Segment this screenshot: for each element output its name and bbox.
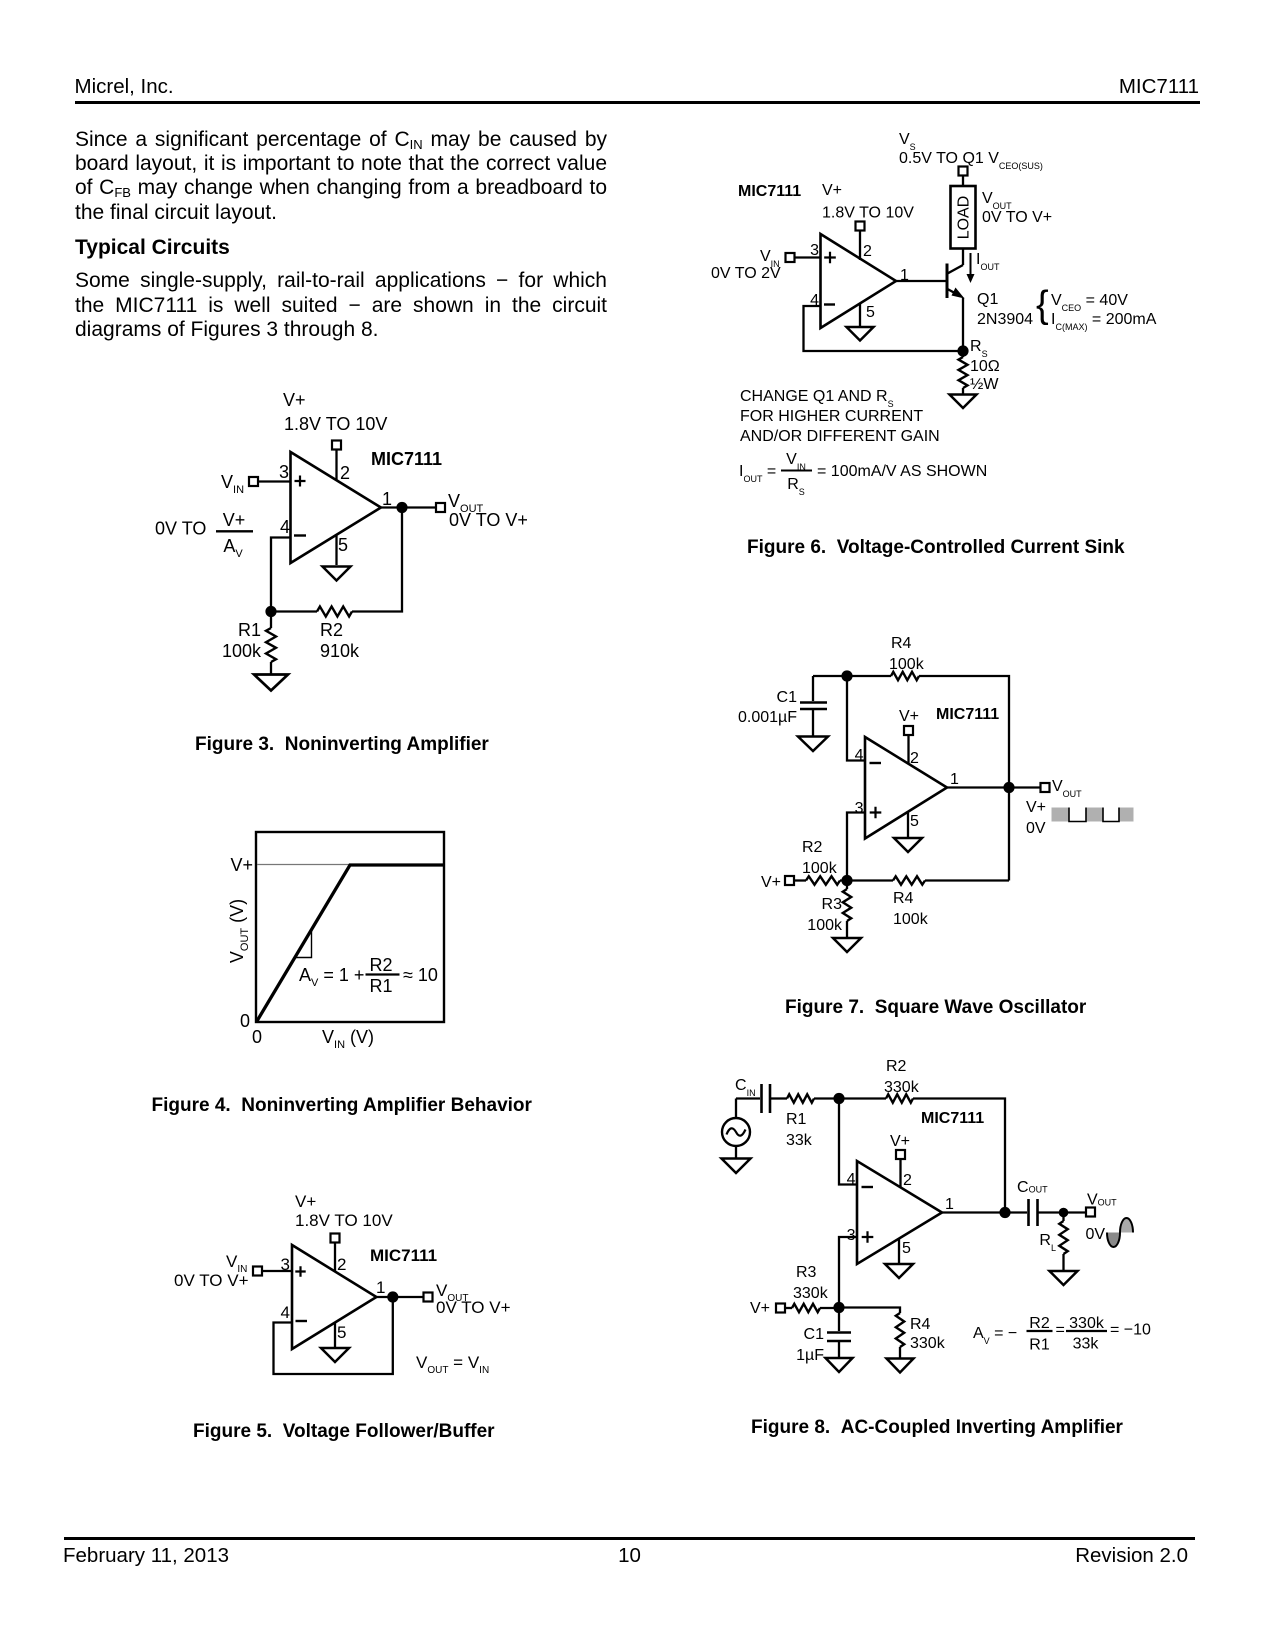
resistor R4 (fig8) [896,1313,904,1347]
svg-text:COUT​: COUT​ [1017,1179,1048,1196]
svg-text:0: 0 [252,1027,262,1047]
inverting input - symbol (fig7) [870,762,882,764]
terminal V+ pin 2 (fig5) [331,1234,340,1243]
svg-text:MIC7111: MIC7111 [371,449,442,469]
op-amp U1 MIC7111 (fig3) [291,452,381,563]
svg-text:100k: 100k [802,860,838,877]
sine wave graphic (fig8) [1107,1233,1120,1248]
header right: MIC7111 [999,77,1199,98]
svg-text:R4: R4 [891,635,912,652]
svg-text:0V TO V+: 0V TO V+ [982,209,1052,226]
svg-text:R2: R2 [320,620,343,640]
terminal VIN (fig6) [786,253,795,262]
ground pin5 (fig6) [847,327,874,341]
caption figure 5 [193,1422,495,1441]
svg-text:V+: V+ [822,182,842,199]
resistor R2 (fig7) [794,879,806,881]
wire op-amp output to Q1 base (fig6) [896,280,946,282]
svg-text:330k: 330k [910,1335,946,1352]
svg-text:2: 2 [863,243,872,260]
resistor R4 top (fig7) [891,672,919,680]
svg-text:= 100mA/V AS SHOWN: = 100mA/V AS SHOWN [817,463,987,480]
svg-text:R1: R1 [1029,1337,1050,1354]
wire pin2 (fig6) [859,231,861,261]
footer rule [64,1537,1195,1540]
header rule [75,101,1200,104]
svg-text:33k: 33k [1073,1336,1100,1353]
svg-text:VOUT​: VOUT​ [1087,1192,1117,1209]
terminal VS (fig6) [959,167,968,176]
svg-text:0V TO V+: 0V TO V+ [436,1298,511,1317]
ground RS (fig6) [950,395,977,409]
svg-text:V+: V+ [223,510,246,530]
junction input node (fig8) [833,1093,844,1104]
op-amp U1 (fig8) [857,1161,942,1264]
wire pin5 to ground (fig6) [859,304,861,327]
svg-text:5: 5 [337,1323,346,1342]
junction output node (fig5) [387,1291,398,1302]
svg-text:2: 2 [340,463,350,483]
svg-text:1: 1 [945,1196,954,1213]
svg-text:{: { [1036,284,1049,326]
svg-text:1.8V TO 10V: 1.8V TO 10V [284,414,387,434]
junction bias node (fig8) [833,1302,844,1313]
terminal V+ pin 2 (fig6) [856,222,865,231]
terminal VIN (fig3) [249,477,258,486]
transistor Q1 2N3904 (fig6) [948,265,964,274]
svg-text:R1: R1 [786,1111,807,1128]
wire inverting input to feedback node (fig3) [271,538,291,608]
svg-text:2: 2 [910,750,919,767]
svg-text:3: 3 [855,800,864,817]
svg-text:0: 0 [240,1011,250,1031]
junction output node (fig8) [999,1207,1010,1218]
svg-text:MIC7111: MIC7111 [370,1246,437,1265]
wire source to CIN (fig8) [736,1097,760,1099]
terminal V+ pin 2 (fig3) [332,441,341,450]
svg-text:2: 2 [903,1172,912,1189]
svg-text:4: 4 [855,747,864,764]
svg-text:0V: 0V [1086,1226,1106,1243]
svg-text:R3: R3 [796,1264,817,1281]
svg-text:MIC7111: MIC7111 [936,706,999,723]
svg-text:100k: 100k [222,641,262,661]
svg-text:FOR HIGHER CURRENT: FOR HIGHER CURRENT [740,408,923,425]
resistor R1 (fig3) [270,616,272,628]
paragraph 2 [75,269,607,343]
resistor RL (fig8) [1062,1213,1064,1222]
wire pin2 (fig8) [899,1159,901,1188]
svg-text:V+: V+ [1026,799,1046,816]
wire pin5 to ground (fig7) [907,812,909,838]
svg-text:V+: V+ [295,1192,316,1211]
junction RS node (fig6) [957,345,968,356]
svg-text:1: 1 [900,267,909,284]
svg-text:LOAD: LOAD [956,196,973,240]
wire VIN input (fig5) [262,1270,292,1272]
ground source (fig8) [722,1159,751,1174]
svg-text:910k: 910k [320,641,360,661]
svg-text:=: = [1056,1322,1065,1339]
svg-text:0V TO: 0V TO [155,519,206,539]
header left: Micrel, Inc. [75,77,174,98]
terminal V+ left (fig7) [785,876,794,885]
inverting input - symbol (fig3) [294,534,306,536]
svg-text:R1: R1 [369,976,392,996]
svg-text:VOUT​: VOUT​ [1052,778,1082,799]
resistor R4 bottom (fig7) [893,876,925,884]
ground R1 (fig3) [254,675,288,691]
wire pin5 to ground (fig8) [898,1238,900,1264]
resistor RS (fig6) [962,351,964,357]
footer revision [988,1546,1188,1567]
svg-text:10Ω: 10Ω [970,358,1000,375]
wire VIN input (fig3) [258,480,291,482]
svg-text:VOUT​ (V): VOUT​ (V) [227,899,251,963]
inverting input - symbol (fig6) [824,303,835,305]
svg-text:VIN​: VIN​ [221,472,244,496]
load box (fig6) [951,186,976,249]
svg-text:= −10: = −10 [1110,1322,1151,1339]
wire node to R2 (fig3) [271,610,317,612]
svg-text:0.5V TO Q1 VCEO(SUS)​: 0.5V TO Q1 VCEO(SUS)​ [899,150,1043,171]
svg-text:33k: 33k [786,1132,813,1149]
svg-text:3: 3 [847,1227,856,1244]
wire Q1 emitter down (fig6) [962,298,964,352]
svg-text:CIN​: CIN​ [735,1077,756,1098]
wire node to R4 (fig8) [839,1308,900,1314]
junction RL node (fig8) [1059,1208,1069,1218]
svg-text:RS​: RS​ [970,338,988,359]
svg-text:V+: V+ [899,708,919,725]
wire pin2 (fig5) [334,1243,336,1273]
wire R4 to right rail (fig7) [919,676,1009,788]
wire output (fig7) [947,786,1040,788]
wire pin5 to ground (fig3) [335,535,337,566]
capacitor C1 (fig7) [812,676,814,701]
ground RL (fig8) [1050,1271,1078,1285]
svg-text:2N3904: 2N3904 [977,311,1033,328]
junction output node (fig7) [1003,782,1014,793]
svg-text:RS​: RS​ [787,476,805,497]
wire load to Q1 collector (fig6) [962,249,964,266]
ground pin5 (fig3) [323,567,351,581]
terminal V+ left (fig8) [776,1304,785,1313]
svg-text:V+: V+ [750,1300,770,1317]
ground R4 (fig8) [887,1359,914,1373]
wire output (fig8) [942,1211,1027,1213]
svg-text:Q1: Q1 [977,291,998,308]
svg-text:0V TO 2V: 0V TO 2V [711,265,781,282]
svg-text:VS​: VS​ [899,131,916,152]
svg-text:VIN​ (V): VIN​ (V) [322,1027,374,1051]
footer date [63,1546,229,1567]
svg-text:R2: R2 [369,955,392,975]
caption figure 4 [152,1096,532,1115]
resistor R1 (fig8) [787,1094,814,1102]
wire noninverting input to node (fig8) [839,1237,857,1308]
svg-text:R1: R1 [238,620,261,640]
svg-text:VIN​: VIN​ [786,451,806,472]
wire noninverting input (fig7) [847,813,865,881]
wire output (fig5) [376,1296,423,1298]
junction top node (fig7) [841,670,852,681]
wire node to R4 bottom (fig7) [847,879,893,881]
wire inverting input to node (fig8) [839,1099,857,1185]
op-amp U1 MIC7111 (fig5) [292,1245,376,1349]
svg-text:R4: R4 [910,1316,931,1333]
wire R1 to node (fig8) [814,1097,886,1099]
noninverting input + symbol (fig7) [870,807,882,819]
op-amp U1 (fig6) [821,234,897,328]
wire pin2 (fig3) [335,450,337,482]
terminal VOUT (fig3) [436,503,445,512]
svg-text:V+: V+ [761,874,781,891]
current arrow IOUT (fig6) [970,253,972,275]
wire feedback loop (fig5) [274,1297,393,1374]
svg-text:R2: R2 [886,1058,907,1075]
svg-text:1.8V TO 10V: 1.8V TO 10V [822,205,914,222]
wire inverting input (fig7) [847,676,865,761]
caption figure 8 [751,1418,1123,1437]
ground C1 (fig8) [826,1358,853,1372]
svg-text:5: 5 [866,304,875,321]
svg-text:CHANGE Q1 AND RS​: CHANGE Q1 AND RS​ [740,388,894,409]
op-amp U1 (fig7) [865,737,947,839]
svg-text:AND/OR DIFFERENT GAIN: AND/OR DIFFERENT GAIN [740,428,940,445]
svg-text:1µF: 1µF [796,1347,824,1364]
resistor R3 (fig7) [846,881,848,890]
wire COUT to RL (fig8) [1039,1211,1086,1213]
transfer curve (fig4) [257,865,443,1021]
svg-text:1: 1 [950,771,959,788]
svg-text:0.001µF: 0.001µF [738,709,797,726]
svg-text:R3: R3 [822,896,843,913]
resistor R2 (fig3) [317,607,352,617]
svg-text:0V TO V+: 0V TO V+ [174,1271,249,1290]
terminal VOUT (fig5) [424,1293,433,1302]
svg-text:100k: 100k [807,917,843,934]
junction output node (fig3) [396,502,407,513]
svg-text:VCEO​ = 40V: VCEO​ = 40V [1051,292,1128,313]
svg-text:1.8V TO 10V: 1.8V TO 10V [295,1211,393,1230]
svg-text:C1: C1 [804,1326,825,1343]
svg-text:100k: 100k [889,656,925,673]
terminal VOUT (fig8) [1086,1208,1095,1217]
noninverting input + symbol (fig8) [862,1231,874,1243]
noninverting input + symbol (fig5) [295,1266,305,1276]
resistor R3 (fig8) [785,1307,792,1309]
svg-text:R2: R2 [1029,1315,1050,1332]
svg-text:C1: C1 [777,689,798,706]
footer page number [64,1546,1195,1567]
wire VS to load (fig6) [962,176,964,187]
wire feedback to RS node (fig6) [804,306,964,351]
wire R2 to output (fig8) [913,1099,1005,1213]
caption figure 7 [785,998,1086,1017]
ground R3 (fig7) [833,938,861,952]
caption figure 6 [747,538,1125,557]
wire CIN to R1 (fig8) [771,1097,787,1099]
svg-text:V+: V+ [230,855,253,875]
noninverting input + symbol (fig3) [295,476,306,487]
svg-text:AV​: AV​ [223,536,243,560]
slope indicator (fig4) [294,929,312,958]
wire top feedback (fig7) [813,675,891,677]
svg-text:1: 1 [382,489,392,509]
svg-text:0V: 0V [1026,820,1046,837]
svg-text:1: 1 [376,1278,385,1297]
svg-text:IOUT​ =: IOUT​ = [739,463,776,484]
wire pin5 to ground (fig5) [334,1323,336,1348]
terminal VIN (fig5) [253,1267,262,1276]
svg-text:VOUT​ = VIN​: VOUT​ = VIN​ [416,1353,489,1376]
svg-text:V+: V+ [890,1133,910,1150]
svg-text:IC(MAX)​ = 200mA: IC(MAX)​ = 200mA [1051,311,1157,332]
svg-text:½W: ½W [970,376,999,393]
wire output (fig3) [381,506,436,508]
ground pin5 (fig5) [321,1348,349,1362]
svg-text:MIC7111: MIC7111 [921,1110,984,1127]
svg-text:RL​: RL​ [1039,1232,1056,1253]
svg-text:AV​ = −: AV​ = − [973,1325,1017,1346]
square wave graphic (fig7) [1052,808,1070,822]
terminal V+ pin 2 (fig7) [904,726,913,735]
inverting input - symbol (fig8) [862,1186,874,1188]
svg-text:2: 2 [337,1255,346,1274]
terminal VOUT (fig7) [1041,783,1050,792]
ground pin5 (fig7) [894,838,922,852]
svg-text:330k: 330k [1069,1315,1105,1332]
svg-text:≈ 10: ≈ 10 [403,965,438,985]
wire pin2 (fig7) [907,735,909,764]
svg-text:5: 5 [902,1240,911,1257]
svg-text:4: 4 [280,517,290,537]
svg-text:100k: 100k [893,911,929,928]
svg-text:3: 3 [279,462,289,482]
wire R2 to output (fig3) [352,508,402,612]
ground C1 (fig7) [798,737,828,752]
svg-text:5: 5 [338,535,348,555]
svg-text:V+: V+ [283,390,306,410]
capacitor C1 (fig8) [838,1308,840,1332]
capacitor CIN (fig8) [760,1084,763,1113]
svg-text:4: 4 [281,1303,290,1322]
junction bottom node (fig7) [841,875,852,886]
svg-text:AV​ = 1 +: AV​ = 1 + [299,965,364,989]
svg-text:330k: 330k [884,1079,920,1096]
V+ level line (fig4) [257,864,443,866]
ac source V1 (fig8) [735,1099,737,1118]
graph axes box (fig4) [256,832,444,1022]
svg-text:0V TO V+: 0V TO V+ [449,510,528,530]
terminal V+ pin2 (fig8) [896,1150,905,1159]
svg-text:VOUT​: VOUT​ [982,190,1012,211]
svg-text:IOUT​: IOUT​ [976,251,1000,272]
paragraph 1 [75,128,607,226]
noninverting input + symbol (fig6) [824,252,836,264]
svg-text:R2: R2 [802,839,823,856]
inverting input - symbol (fig5) [296,1320,308,1322]
ground pin5 (fig8) [885,1264,913,1278]
svg-text:5: 5 [910,813,919,830]
svg-text:R4: R4 [893,890,914,907]
wire right rail down (fig7) [1008,788,1010,881]
junction feedback node (fig3) [265,606,276,617]
caption figure 3 [195,735,489,754]
resistor R2 (fig8) [886,1094,913,1102]
heading Typical Circuits [75,237,230,258]
svg-text:MIC7111: MIC7111 [738,183,801,200]
wire VIN input (fig6) [795,256,821,258]
svg-text:330k: 330k [793,1285,829,1302]
capacitor COUT (fig8) [1027,1199,1030,1226]
